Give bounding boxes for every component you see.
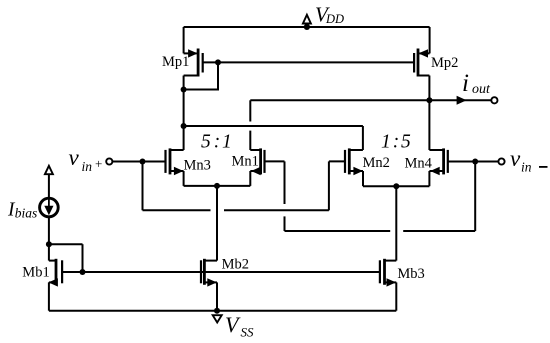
svg-text:+: +: [95, 156, 102, 171]
svg-text:i: i: [462, 70, 469, 97]
svg-text:bias: bias: [15, 205, 38, 220]
svg-text:Mn4: Mn4: [405, 156, 433, 172]
svg-text:5: 5: [201, 131, 211, 152]
svg-text::: :: [393, 131, 400, 152]
svg-text::: :: [214, 131, 221, 152]
svg-text:V: V: [225, 312, 241, 337]
svg-text:SS: SS: [241, 325, 255, 340]
svg-text:Mn1: Mn1: [232, 154, 259, 170]
svg-text:out: out: [472, 82, 491, 97]
svg-text:1: 1: [222, 131, 232, 152]
svg-text:Mn2: Mn2: [363, 155, 390, 171]
svg-text:Mb1: Mb1: [22, 265, 49, 281]
svg-text:1: 1: [381, 131, 391, 152]
svg-text:v: v: [510, 146, 521, 171]
svg-text:Mn3: Mn3: [184, 158, 211, 174]
svg-text:Mb2: Mb2: [222, 257, 249, 273]
svg-text:Mp1: Mp1: [162, 54, 189, 70]
svg-text:Mb3: Mb3: [397, 266, 424, 282]
svg-text:v: v: [69, 145, 80, 170]
svg-text:Mp2: Mp2: [431, 55, 458, 71]
svg-text:5: 5: [401, 131, 411, 152]
svg-text:in: in: [82, 159, 93, 174]
svg-text:in: in: [521, 160, 532, 175]
svg-text:DD: DD: [325, 12, 344, 26]
